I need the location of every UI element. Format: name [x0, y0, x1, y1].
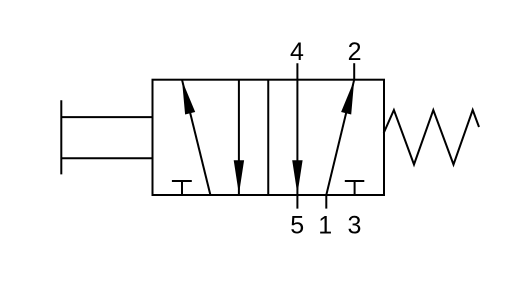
port 4 line through right chamber to port 5 — [296, 63, 298, 208]
actuator top rail — [61, 116, 152, 118]
left chamber blocked port T crossbar — [172, 180, 192, 182]
svg-text:5: 5 — [290, 211, 304, 239]
actuator plunger end plate — [60, 100, 62, 174]
port 2 stub — [353, 63, 355, 79]
port 1 stub — [325, 195, 327, 209]
svg-text:1: 1 — [318, 211, 332, 239]
left chamber flow line 2-3 — [238, 80, 240, 195]
right chamber flow line 1-2 — [326, 80, 354, 195]
svg-text:3: 3 — [347, 211, 361, 239]
svg-text:4: 4 — [290, 38, 304, 66]
valve body box — [153, 80, 385, 195]
port 3 blocked T crossbar — [345, 180, 365, 182]
svg-text:2: 2 — [348, 38, 362, 66]
left chamber flow line 1-4 — [182, 80, 210, 195]
actuator bottom rail — [61, 157, 152, 159]
chamber divider — [267, 80, 269, 195]
port 3 blocked T stem — [354, 181, 356, 195]
return spring — [384, 110, 479, 165]
arrowhead right diagonal — [341, 80, 354, 114]
left chamber blocked port T stem — [181, 181, 183, 195]
arrowhead right vertical — [292, 160, 302, 194]
arrowhead left diagonal — [182, 80, 195, 114]
arrowhead left vertical — [234, 160, 244, 194]
